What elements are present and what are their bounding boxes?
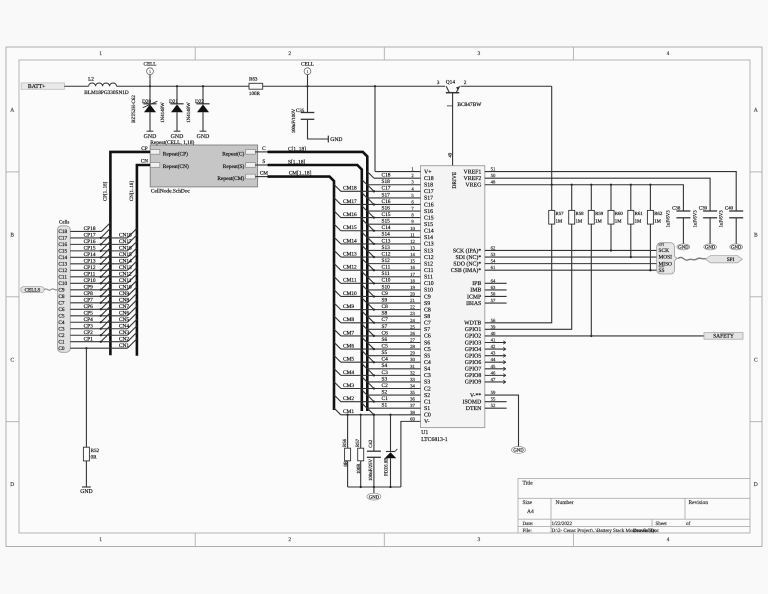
- svg-text:CP3: CP3: [84, 324, 94, 330]
- svg-text:S18: S18: [424, 183, 433, 189]
- svg-text:S16: S16: [424, 209, 433, 215]
- svg-text:IBIAS: IBIAS: [466, 301, 481, 307]
- svg-text:1N4148W: 1N4148W: [160, 102, 166, 123]
- svg-text:CP16: CP16: [84, 239, 96, 245]
- svg-text:CN15: CN15: [119, 252, 132, 258]
- svg-text:S13: S13: [382, 245, 391, 251]
- svg-text:CP6: CP6: [84, 304, 94, 310]
- svg-text:CN1: CN1: [119, 343, 129, 349]
- svg-text:CM18: CM18: [343, 186, 357, 192]
- svg-text:C12: C12: [58, 268, 67, 274]
- svg-text:A4: A4: [527, 509, 534, 515]
- svg-text:CP18: CP18: [84, 226, 96, 232]
- svg-text:S[1..18]: S[1..18]: [288, 159, 306, 165]
- svg-text:S3: S3: [382, 376, 388, 382]
- svg-text:R57: R57: [556, 211, 565, 217]
- svg-text:S5: S5: [382, 350, 388, 356]
- svg-text:CP2: CP2: [84, 330, 94, 336]
- svg-text:C13: C13: [58, 262, 67, 268]
- svg-text:D22: D22: [195, 99, 204, 105]
- svg-text:File:: File:: [523, 528, 532, 534]
- svg-text:VREF2: VREF2: [463, 176, 481, 182]
- svg-text:B: B: [10, 232, 14, 238]
- svg-text:C18: C18: [382, 173, 391, 179]
- svg-text:S9: S9: [424, 301, 430, 307]
- svg-text:100R: 100R: [356, 463, 362, 474]
- svg-text:3: 3: [478, 51, 481, 57]
- svg-text:D20: D20: [142, 99, 151, 105]
- svg-text:Size: Size: [523, 500, 533, 506]
- svg-text:Sheet: Sheet: [656, 521, 668, 527]
- svg-text:CM11: CM11: [343, 278, 357, 284]
- svg-text:Repeat(CM): Repeat(CM): [217, 176, 244, 182]
- svg-text:CP8: CP8: [84, 291, 94, 297]
- svg-text:CSB (IMA)*: CSB (IMA)*: [451, 267, 482, 274]
- svg-text:C10: C10: [382, 278, 391, 284]
- svg-text:CP11: CP11: [84, 272, 96, 278]
- svg-text:C13: C13: [382, 238, 391, 244]
- svg-text:D: D: [754, 482, 758, 488]
- svg-text:1M: 1M: [595, 219, 602, 225]
- svg-text:CM8: CM8: [343, 317, 354, 323]
- svg-text:CM: CM: [260, 171, 269, 177]
- svg-text:C17: C17: [58, 236, 67, 242]
- svg-text:CP4: CP4: [84, 317, 94, 323]
- svg-text:C4: C4: [424, 360, 431, 366]
- svg-text:CN5: CN5: [119, 317, 129, 323]
- svg-text:0R: 0R: [343, 460, 349, 466]
- svg-text:CN13: CN13: [119, 265, 132, 271]
- svg-text:CM6: CM6: [343, 343, 354, 349]
- svg-text:1uF/6V3: 1uF/6V3: [692, 210, 698, 228]
- svg-text:GPIO8: GPIO8: [465, 373, 482, 379]
- svg-text:R52: R52: [91, 448, 100, 454]
- svg-text:R56: R56: [342, 438, 348, 447]
- svg-text:C5: C5: [58, 313, 65, 319]
- svg-text:CN18: CN18: [119, 233, 132, 239]
- svg-text:3: 3: [478, 537, 481, 543]
- svg-text:VREF1: VREF1: [463, 169, 481, 175]
- svg-text:S16: S16: [382, 205, 391, 211]
- svg-text:SDO (NC)*: SDO (NC)*: [453, 260, 481, 267]
- svg-text:CM16: CM16: [343, 212, 357, 218]
- svg-text:C7: C7: [382, 317, 389, 323]
- svg-text:C6: C6: [382, 330, 389, 336]
- svg-text:CellNode.SchDoc: CellNode.SchDoc: [151, 188, 191, 194]
- svg-text:CN3: CN3: [119, 330, 129, 336]
- svg-text:S8: S8: [382, 311, 388, 317]
- svg-text:Q14: Q14: [446, 79, 456, 85]
- svg-text:GND: GND: [678, 245, 689, 251]
- svg-text:Revision: Revision: [689, 500, 709, 506]
- svg-text:C6: C6: [58, 307, 65, 313]
- svg-text:C5: C5: [382, 343, 389, 349]
- svg-text:R61: R61: [635, 211, 644, 217]
- svg-text:2: 2: [288, 537, 291, 543]
- svg-text:BZT52H-C62: BZT52H-C62: [131, 95, 137, 123]
- svg-text:1N4148W: 1N4148W: [186, 102, 192, 123]
- svg-text:Repeat(C): Repeat(C): [222, 152, 244, 158]
- svg-text:Number: Number: [556, 500, 574, 506]
- svg-text:CM1: CM1: [343, 409, 354, 415]
- svg-text:CP: CP: [141, 146, 148, 152]
- svg-text:S17: S17: [424, 196, 433, 202]
- svg-text:MOSI: MOSI: [659, 255, 673, 261]
- svg-text:C16: C16: [58, 242, 67, 248]
- svg-text:C9: C9: [424, 294, 431, 300]
- svg-text:C3: C3: [58, 326, 65, 332]
- svg-text:GND: GND: [513, 448, 524, 454]
- svg-text:D: D: [10, 482, 14, 488]
- svg-text:GPIO5: GPIO5: [465, 353, 482, 359]
- svg-text:CM[1..18]: CM[1..18]: [289, 171, 312, 177]
- svg-text:CP[1..18]: CP[1..18]: [103, 181, 109, 201]
- svg-text:C42: C42: [368, 439, 374, 448]
- svg-text:R62: R62: [654, 211, 663, 217]
- svg-text:C15: C15: [424, 215, 434, 221]
- svg-text:C2: C2: [58, 333, 65, 339]
- svg-text:C7: C7: [58, 300, 65, 306]
- svg-text:S15: S15: [424, 222, 433, 228]
- svg-text:U1: U1: [421, 430, 428, 436]
- svg-text:1: 1: [99, 537, 102, 543]
- svg-text:S13: S13: [424, 248, 433, 254]
- svg-text:SPI: SPI: [727, 257, 735, 263]
- svg-text:CM3: CM3: [343, 383, 354, 389]
- svg-text:B: B: [754, 232, 758, 238]
- svg-text:C35: C35: [296, 108, 305, 114]
- svg-text:C2: C2: [424, 386, 431, 392]
- svg-text:S11: S11: [382, 271, 390, 277]
- svg-text:Repeat(CN): Repeat(CN): [163, 164, 189, 170]
- svg-text:CN12: CN12: [119, 272, 132, 278]
- svg-text:CN17: CN17: [119, 239, 132, 245]
- svg-text:S6: S6: [424, 340, 430, 346]
- svg-text:R60: R60: [615, 211, 624, 217]
- svg-text:1M: 1M: [635, 219, 642, 225]
- svg-text:S9: S9: [382, 297, 388, 303]
- svg-text:S14: S14: [382, 232, 391, 238]
- svg-text:V-: V-: [424, 419, 430, 425]
- svg-text:CM9: CM9: [343, 304, 354, 310]
- svg-text:1: 1: [307, 69, 309, 74]
- svg-text:1uF/6V3: 1uF/6V3: [666, 210, 672, 228]
- svg-text:GND: GND: [369, 494, 380, 500]
- svg-text:DRIVE: DRIVE: [452, 171, 458, 188]
- svg-text:C1: C1: [424, 399, 431, 405]
- svg-text:C0: C0: [424, 413, 431, 419]
- svg-text:Title: Title: [523, 481, 534, 487]
- svg-text:CP10: CP10: [84, 278, 96, 284]
- svg-text:0R: 0R: [91, 455, 98, 461]
- svg-text:CN9: CN9: [119, 291, 129, 297]
- svg-text:S4: S4: [382, 363, 388, 369]
- svg-text:CM10: CM10: [343, 291, 357, 297]
- svg-text:C11: C11: [382, 265, 391, 271]
- svg-text:1uF/6V3: 1uF/6V3: [718, 210, 724, 228]
- svg-text:CM2: CM2: [343, 396, 354, 402]
- svg-text:CM7: CM7: [343, 330, 354, 336]
- svg-text:Cells: Cells: [59, 219, 69, 225]
- svg-text:GPIO1: GPIO1: [465, 327, 482, 333]
- svg-text:S10: S10: [424, 288, 433, 294]
- svg-text:C[1..18]: C[1..18]: [288, 146, 306, 152]
- svg-text:BC847BW: BC847BW: [457, 102, 482, 108]
- svg-text:CELL: CELL: [144, 62, 157, 68]
- svg-text:ICMP: ICMP: [467, 294, 482, 300]
- svg-text:CN8: CN8: [119, 298, 129, 304]
- svg-text:1/22/2022: 1/22/2022: [552, 521, 573, 527]
- svg-text:GPIO9: GPIO9: [465, 380, 482, 386]
- svg-text:C12: C12: [382, 251, 391, 257]
- svg-text:Date:: Date:: [523, 521, 534, 527]
- svg-text:SS: SS: [659, 268, 665, 274]
- svg-text:S6: S6: [382, 337, 388, 343]
- svg-text:LTC6813-1: LTC6813-1: [421, 437, 448, 443]
- svg-text:S12: S12: [424, 261, 433, 267]
- svg-text:CN4: CN4: [119, 324, 129, 330]
- svg-text:C2: C2: [382, 383, 389, 389]
- svg-text:S11: S11: [424, 275, 433, 281]
- svg-text:C3: C3: [382, 370, 389, 376]
- svg-text:S5: S5: [424, 353, 430, 359]
- svg-text:A: A: [754, 108, 758, 114]
- svg-text:C11: C11: [424, 268, 434, 274]
- svg-text:IMB: IMB: [470, 288, 481, 294]
- svg-text:SCK: SCK: [659, 248, 670, 254]
- svg-text:C0: C0: [58, 346, 65, 352]
- svg-text:S3: S3: [424, 380, 430, 386]
- svg-text:CP15: CP15: [84, 246, 96, 252]
- svg-text:C18: C18: [424, 176, 434, 182]
- svg-text:100nF/100V: 100nF/100V: [291, 108, 297, 133]
- svg-text:C39: C39: [699, 206, 708, 212]
- svg-text:CN: CN: [141, 158, 149, 164]
- svg-text:C8: C8: [58, 294, 65, 300]
- svg-text:S10: S10: [382, 284, 391, 290]
- svg-text:C: C: [262, 146, 266, 152]
- svg-text:C15: C15: [382, 212, 391, 218]
- svg-text:C14: C14: [382, 225, 391, 231]
- svg-text:C4: C4: [382, 357, 389, 363]
- svg-text:C9: C9: [382, 291, 389, 297]
- svg-text:4: 4: [667, 537, 670, 543]
- svg-text:DTEN: DTEN: [466, 406, 482, 412]
- svg-text:100R: 100R: [249, 91, 261, 97]
- svg-text:C7: C7: [424, 321, 431, 327]
- svg-text:CN14: CN14: [119, 259, 132, 265]
- svg-text:CN16: CN16: [119, 246, 132, 252]
- svg-text:C14: C14: [58, 255, 67, 261]
- svg-text:C8: C8: [382, 304, 389, 310]
- svg-text:1M: 1M: [556, 219, 563, 225]
- svg-text:GPIO7: GPIO7: [465, 367, 482, 373]
- svg-text:C14: C14: [424, 229, 434, 235]
- svg-text:C13: C13: [424, 242, 434, 248]
- svg-text:C3: C3: [424, 373, 431, 379]
- svg-text:Repeat(CP): Repeat(CP): [163, 152, 188, 158]
- svg-text:CM5: CM5: [343, 357, 354, 363]
- svg-text:C6: C6: [424, 334, 431, 340]
- svg-text:SDI (NC)*: SDI (NC)*: [456, 254, 482, 261]
- svg-text:CM15: CM15: [343, 225, 357, 231]
- svg-text:1: 1: [149, 69, 151, 74]
- svg-text:R59: R59: [595, 211, 604, 217]
- svg-text:C: C: [10, 357, 14, 363]
- svg-text:4: 4: [667, 51, 670, 57]
- svg-text:C5: C5: [424, 347, 431, 353]
- svg-text:C4: C4: [58, 320, 65, 326]
- svg-text:C12: C12: [424, 255, 434, 261]
- svg-text:S4: S4: [424, 367, 430, 373]
- svg-text:C1: C1: [382, 396, 389, 402]
- svg-text:R58: R58: [576, 211, 585, 217]
- svg-text:Repeat(CELL, 1,18): Repeat(CELL, 1,18): [150, 140, 194, 146]
- svg-text:ISOMD: ISOMD: [463, 399, 482, 405]
- svg-text:CN[1..18]: CN[1..18]: [129, 181, 135, 201]
- svg-text:CELLS: CELLS: [25, 288, 41, 294]
- svg-text:C10: C10: [58, 281, 67, 287]
- svg-text:WDTB: WDTB: [464, 321, 481, 327]
- svg-text:CP5: CP5: [84, 311, 94, 317]
- svg-text:C38: C38: [672, 206, 681, 212]
- svg-text:SPI: SPI: [658, 242, 665, 247]
- svg-text:D21: D21: [169, 99, 178, 105]
- svg-text:S1: S1: [424, 406, 430, 412]
- svg-text:CM4: CM4: [343, 370, 354, 376]
- svg-text:S17: S17: [382, 192, 391, 198]
- svg-text:GND: GND: [731, 245, 742, 251]
- svg-text:CP12: CP12: [84, 265, 96, 271]
- svg-text:CN11: CN11: [119, 278, 132, 284]
- svg-text:S2: S2: [382, 389, 388, 395]
- svg-text:CM13: CM13: [343, 251, 357, 257]
- svg-text:S2: S2: [424, 393, 430, 399]
- svg-text:C: C: [754, 357, 758, 363]
- svg-text:GPIO3: GPIO3: [465, 340, 482, 346]
- svg-text:1: 1: [99, 51, 102, 57]
- svg-text:GND: GND: [80, 489, 92, 495]
- svg-text:S: S: [262, 159, 265, 165]
- svg-text:C17: C17: [382, 186, 391, 192]
- svg-text:CN10: CN10: [119, 285, 132, 291]
- svg-text:VREG: VREG: [465, 183, 482, 189]
- svg-text:C16: C16: [382, 199, 391, 205]
- svg-text:GPIO6: GPIO6: [465, 360, 482, 366]
- svg-text:CP17: CP17: [84, 233, 96, 239]
- svg-text:S12: S12: [382, 258, 391, 264]
- svg-text:1M: 1M: [576, 219, 583, 225]
- svg-text:C40: C40: [725, 206, 734, 212]
- svg-text:S14: S14: [424, 235, 433, 241]
- svg-text:SAFETY: SAFETY: [713, 334, 734, 340]
- svg-text:1M: 1M: [654, 219, 661, 225]
- svg-text:CP1: CP1: [84, 337, 94, 343]
- svg-text:S7: S7: [424, 327, 430, 333]
- svg-text:C10: C10: [424, 281, 434, 287]
- svg-text:100nF/25V: 100nF/25V: [368, 458, 374, 481]
- svg-text:C18: C18: [58, 229, 67, 235]
- svg-text:Repeat(S): Repeat(S): [223, 164, 245, 170]
- svg-text:A: A: [10, 108, 14, 114]
- svg-text:CP7: CP7: [84, 298, 94, 304]
- svg-text:C15: C15: [58, 249, 67, 255]
- svg-text:MISO: MISO: [659, 261, 673, 267]
- svg-text:GND: GND: [197, 134, 210, 140]
- svg-text:49: 49: [448, 152, 454, 157]
- svg-text:1M: 1M: [615, 219, 622, 225]
- svg-text:CN6: CN6: [119, 311, 129, 317]
- svg-text:V+: V+: [424, 169, 432, 175]
- svg-text:R63: R63: [249, 77, 258, 83]
- svg-text:CM12: CM12: [343, 265, 357, 271]
- svg-text:C9: C9: [58, 288, 65, 294]
- svg-text:GND: GND: [705, 245, 716, 251]
- svg-text:CP9: CP9: [84, 285, 94, 291]
- svg-text:S18: S18: [382, 179, 391, 185]
- svg-text:BATT+: BATT+: [28, 84, 46, 90]
- svg-text:R57: R57: [355, 438, 361, 447]
- svg-text:C1: C1: [58, 339, 65, 345]
- svg-text:Drawn By:: Drawn By:: [633, 528, 657, 534]
- svg-text:GPIO2: GPIO2: [465, 334, 482, 340]
- svg-text:L2: L2: [88, 77, 94, 83]
- svg-text:C16: C16: [424, 202, 434, 208]
- svg-text:GPIO4: GPIO4: [465, 347, 482, 353]
- svg-text:C11: C11: [58, 275, 67, 281]
- svg-text:IPB: IPB: [472, 281, 481, 287]
- svg-text:PDZ6.8B: PDZ6.8B: [384, 458, 390, 476]
- svg-text:CELL: CELL: [301, 62, 314, 68]
- svg-text:V-**: V-**: [470, 393, 482, 399]
- svg-text:of: of: [686, 521, 691, 527]
- svg-text:CM14: CM14: [343, 238, 357, 244]
- svg-text:S1: S1: [382, 403, 388, 409]
- svg-text:CP14: CP14: [84, 252, 96, 258]
- svg-text:C8: C8: [424, 307, 431, 313]
- svg-text:CN2: CN2: [119, 337, 129, 343]
- svg-text:S8: S8: [424, 314, 430, 320]
- svg-text:CP13: CP13: [84, 259, 96, 265]
- svg-text:CN7: CN7: [119, 304, 129, 310]
- svg-text:CM17: CM17: [343, 199, 357, 205]
- svg-text:GND: GND: [330, 137, 342, 143]
- svg-text:S15: S15: [382, 219, 391, 225]
- svg-text:BLM18PG330SN1D: BLM18PG330SN1D: [84, 90, 129, 96]
- svg-text:S7: S7: [382, 324, 388, 330]
- svg-text:2: 2: [288, 51, 291, 57]
- svg-text:C17: C17: [424, 189, 434, 195]
- svg-text:SCK (IPA)*: SCK (IPA)*: [453, 247, 482, 254]
